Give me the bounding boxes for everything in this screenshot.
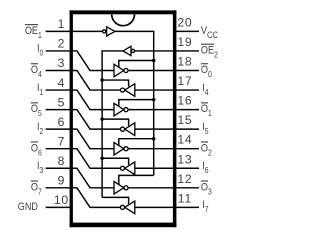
svg-text:8: 8 bbox=[58, 154, 66, 168]
svg-text:6: 6 bbox=[38, 148, 42, 158]
svg-text:0: 0 bbox=[208, 69, 212, 79]
svg-text:5: 5 bbox=[38, 108, 42, 118]
svg-text:O: O bbox=[31, 103, 38, 115]
svg-text:2: 2 bbox=[208, 148, 212, 158]
svg-text:3: 3 bbox=[208, 187, 212, 197]
svg-text:4: 4 bbox=[38, 69, 42, 79]
svg-text:10: 10 bbox=[54, 193, 69, 207]
svg-text:13: 13 bbox=[177, 152, 192, 166]
svg-text:O: O bbox=[31, 64, 38, 76]
svg-text:O: O bbox=[201, 103, 208, 115]
svg-text:O: O bbox=[201, 142, 208, 154]
svg-text:GND: GND bbox=[18, 201, 38, 213]
svg-text:6: 6 bbox=[58, 115, 66, 129]
svg-text:17: 17 bbox=[177, 74, 192, 88]
svg-text:2: 2 bbox=[214, 50, 218, 60]
svg-text:1: 1 bbox=[38, 30, 42, 40]
svg-text:7: 7 bbox=[205, 204, 209, 214]
svg-text:9: 9 bbox=[58, 174, 66, 188]
svg-text:O: O bbox=[201, 182, 208, 194]
svg-text:18: 18 bbox=[177, 55, 192, 69]
svg-text:CC: CC bbox=[207, 29, 218, 40]
svg-text:O: O bbox=[31, 142, 38, 154]
svg-text:1: 1 bbox=[40, 87, 44, 97]
svg-text:2: 2 bbox=[58, 37, 66, 51]
svg-text:20: 20 bbox=[177, 15, 192, 29]
svg-text:OE: OE bbox=[201, 45, 214, 57]
svg-text:4: 4 bbox=[205, 87, 209, 97]
svg-text:2: 2 bbox=[40, 126, 44, 136]
svg-text:14: 14 bbox=[177, 133, 192, 147]
svg-text:3: 3 bbox=[40, 165, 44, 175]
svg-text:6: 6 bbox=[205, 165, 209, 175]
svg-text:3: 3 bbox=[58, 56, 66, 70]
svg-text:5: 5 bbox=[58, 95, 66, 109]
svg-text:1: 1 bbox=[58, 17, 66, 31]
svg-text:OE: OE bbox=[25, 25, 38, 37]
svg-text:12: 12 bbox=[177, 172, 192, 186]
svg-text:4: 4 bbox=[58, 76, 66, 90]
svg-text:15: 15 bbox=[177, 113, 192, 127]
svg-text:5: 5 bbox=[205, 126, 209, 136]
svg-text:V: V bbox=[201, 25, 207, 37]
svg-text:O: O bbox=[201, 64, 208, 76]
svg-text:7: 7 bbox=[38, 187, 42, 197]
svg-text:16: 16 bbox=[177, 94, 192, 108]
svg-text:7: 7 bbox=[58, 134, 66, 148]
svg-text:1: 1 bbox=[208, 108, 212, 118]
svg-text:0: 0 bbox=[40, 48, 44, 58]
svg-text:O: O bbox=[31, 182, 38, 194]
svg-text:11: 11 bbox=[178, 191, 192, 205]
svg-text:19: 19 bbox=[177, 35, 192, 49]
